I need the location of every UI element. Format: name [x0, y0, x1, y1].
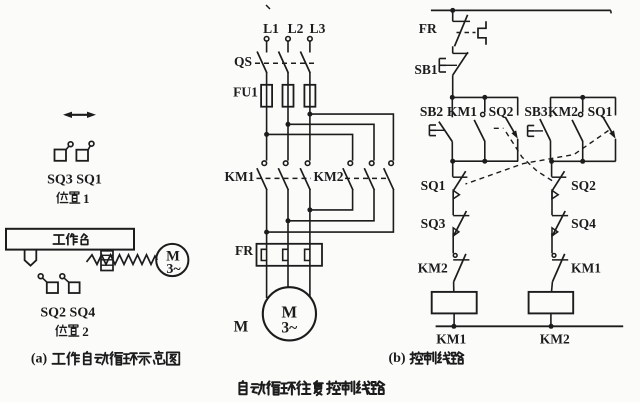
svg-text:SQ4: SQ4	[571, 216, 596, 231]
switch QS pole 1	[257, 52, 267, 85]
caption 自动循环往复控制线路	[239, 381, 384, 395]
wires FR to motor	[267, 266, 310, 298]
contactor KM2 main contact 1	[343, 161, 353, 190]
label FU1	[233, 85, 258, 100]
label KM1 (interlock)	[571, 261, 601, 276]
svg-text:FU1: FU1	[233, 85, 258, 100]
limit switch SQ3 NC contact	[453, 211, 469, 236]
switch QS pole 2	[279, 52, 289, 85]
worktable 工作台 box	[6, 229, 134, 250]
label KM2 (interlock)	[418, 261, 448, 276]
label SQ1 (NC contact)	[421, 178, 446, 193]
limit switch SQ1 NO contact	[603, 97, 616, 161]
limit switch SQ3 symbol (position 1)	[55, 142, 74, 161]
wire SQ3-KM2	[452, 233, 454, 253]
label FR (control contact)	[419, 21, 437, 36]
label KM1 (self-hold contact)	[447, 104, 477, 119]
scan artifact speck	[266, 5, 270, 9]
svg-text:SQ3: SQ3	[421, 216, 446, 231]
control bottom rail	[436, 325, 624, 327]
svg-text:KM2: KM2	[540, 332, 570, 347]
FR thermal element symbol	[478, 21, 486, 45]
label SQ2 SQ4	[40, 306, 95, 321]
limit switch SQ2 NC contact	[552, 171, 567, 199]
wire phases to FR	[267, 210, 310, 244]
svg-text:SQ2: SQ2	[571, 178, 596, 193]
wire L3 phase down	[309, 107, 311, 161]
svg-text:SQ1: SQ1	[421, 178, 446, 193]
label KM1 (coil name)	[436, 332, 466, 347]
right group bottom wire	[549, 159, 616, 164]
caption (a) 工作自动循环示意图	[31, 352, 179, 367]
wire SQ4-KM1	[551, 233, 553, 253]
contactor coil KM2	[529, 292, 574, 314]
wire KM1-coil right	[551, 282, 554, 292]
lead screw nut	[101, 251, 113, 271]
motor M (mechanical diagram)	[156, 244, 188, 277]
wire L2 phase down	[287, 107, 289, 161]
fuse FU1 pole 1	[261, 85, 272, 107]
fuse FU1 pole 2	[283, 85, 294, 107]
motion direction double arrow	[63, 112, 96, 118]
svg-text:SB3: SB3	[524, 104, 548, 119]
FR contact linkage dashed	[457, 32, 476, 34]
svg-text:SQ2 SQ4: SQ2 SQ4	[40, 306, 95, 321]
thermal relay FR heater box	[257, 244, 323, 266]
contactor coil KM1	[432, 292, 477, 314]
left group top wire	[450, 95, 518, 100]
svg-text:M: M	[234, 319, 249, 336]
contactor KM1 main contact 3	[300, 161, 310, 210]
svg-text:KM2: KM2	[418, 261, 448, 276]
motor M 3~ (main circuit)	[263, 287, 316, 340]
svg-text:KM1: KM1	[436, 332, 466, 347]
svg-text:KM2: KM2	[314, 169, 344, 184]
label SQ3	[421, 216, 446, 231]
label SB3	[524, 104, 548, 119]
switch QS pole 3	[300, 52, 310, 85]
label SQ4	[571, 216, 596, 231]
limit switch SQ1 NC contact	[453, 171, 468, 199]
limit switch SQ4 NC contact	[552, 211, 568, 236]
limit switch SQ2 symbol (position 2)	[38, 274, 58, 293]
stop button SB1 NC	[439, 46, 468, 97]
svg-text:3~: 3~	[281, 320, 297, 337]
wire KM2-3 to phase U	[264, 190, 393, 235]
thermal relay FR NC contact	[453, 10, 470, 46]
wire coil to rail right	[549, 313, 554, 328]
contactor KM1 main contact 2	[278, 161, 288, 221]
contactor KM2 auxiliary NO contact	[572, 97, 583, 161]
label SQ3 SQ1	[47, 173, 102, 188]
wire SQ2-SQ4	[551, 191, 553, 215]
KM2 linkage dashed	[345, 177, 388, 179]
start button SB3 NO	[528, 97, 551, 161]
node L1 feed to KM2	[264, 132, 353, 161]
label KM2 (main contacts)	[314, 169, 344, 184]
svg-text:SQ2: SQ2	[489, 104, 514, 119]
KM1 linkage dashed	[257, 177, 312, 179]
label KM2 (self-hold contact)	[548, 104, 578, 119]
contactor KM2 main contact 3	[384, 161, 394, 190]
wire right chain upper	[551, 161, 553, 177]
node L3 feed to KM2	[307, 112, 393, 161]
contactor KM2 NC interlock contact	[453, 254, 469, 282]
label KM1 (main contacts)	[225, 169, 255, 184]
svg-text:L3: L3	[310, 21, 326, 36]
node top line junction	[450, 8, 455, 13]
svg-text:(a): (a)	[31, 352, 48, 367]
svg-text:KM2: KM2	[548, 104, 578, 119]
svg-text:SQ1: SQ1	[588, 104, 613, 119]
svg-text:3~: 3~	[166, 262, 181, 277]
contactor KM1 main contact 1	[257, 161, 267, 232]
svg-text:FR: FR	[235, 243, 253, 258]
svg-text:(b): (b)	[388, 351, 405, 366]
label SQ1 (upper contact)	[588, 104, 613, 119]
contactor KM1 auxiliary NO contact	[474, 97, 485, 161]
wire KM2-2 to phase V	[286, 190, 375, 224]
worktable text 工作台	[53, 234, 88, 245]
svg-text:FR: FR	[419, 21, 437, 36]
lead screw spring zigzag	[87, 255, 158, 265]
wire L1 phase down	[266, 107, 268, 161]
svg-text:1: 1	[83, 191, 90, 206]
svg-text:L2: L2	[288, 21, 304, 36]
label KM2 (coil name)	[540, 332, 570, 347]
label QS	[234, 54, 252, 69]
caption (b) 控制线路	[388, 351, 463, 366]
limit switch SQ2 NO contact	[505, 97, 518, 161]
control supply top line	[431, 10, 611, 13]
svg-text:SQ3 SQ1: SQ3 SQ1	[47, 173, 102, 188]
wire coil to rail left	[451, 313, 456, 328]
left group bottom wire	[450, 159, 518, 164]
svg-text:2: 2	[82, 324, 89, 339]
svg-text:SB1: SB1	[414, 62, 438, 77]
contactor KM2 main contact 2	[364, 161, 374, 190]
wire SQ1-SQ3	[452, 191, 454, 215]
svg-text:L1: L1	[263, 21, 279, 36]
label M (motor)	[234, 319, 249, 336]
SQ2 mechanical linkage dashed	[494, 128, 553, 181]
wire KM2-1 to phase W	[307, 190, 352, 213]
SQ1 mechanical linkage dashed	[466, 131, 609, 185]
wire KM2-coil	[453, 282, 455, 292]
limit switch SQ4 symbol (position 2)	[60, 274, 80, 293]
label SB2	[420, 104, 444, 119]
start button SB2 NO	[429, 97, 452, 161]
label FR (thermal relay heater)	[235, 243, 253, 258]
svg-text:QS: QS	[234, 54, 252, 69]
right group top wire	[550, 95, 615, 100]
svg-text:KM1: KM1	[447, 104, 477, 119]
label 位置2	[56, 324, 89, 339]
contactor KM1 NC interlock contact	[552, 254, 568, 282]
svg-text:KM1: KM1	[225, 169, 255, 184]
svg-text:KM1: KM1	[571, 261, 601, 276]
dog pointer on worktable	[25, 250, 37, 266]
terminal L1	[263, 21, 279, 53]
terminal L2	[286, 21, 304, 53]
limit switch SQ1 symbol (position 1)	[76, 141, 94, 161]
label 位置1	[57, 191, 90, 206]
terminal L3	[308, 21, 326, 53]
QS linkage dashed line	[255, 62, 316, 64]
label SQ2 (NC contact)	[571, 178, 596, 193]
node L2 feed to KM2	[286, 122, 375, 161]
svg-text:SB2: SB2	[420, 104, 444, 119]
label SQ2 (upper contact)	[489, 104, 514, 119]
fuse FU1 pole 3	[304, 85, 315, 107]
wire left chain upper	[452, 161, 454, 177]
label SB1	[414, 62, 438, 77]
